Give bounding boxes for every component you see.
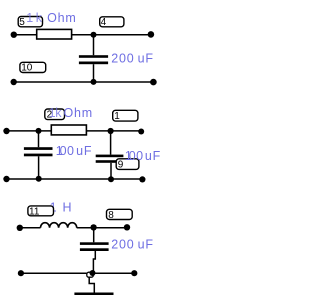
capacitor C4 plate top	[80, 242, 109, 245]
node terminal top-right (pin 4)	[148, 31, 155, 38]
svg-text:100uF: 100uF	[125, 149, 161, 163]
node junction section3 (C4)	[90, 224, 96, 230]
svg-text:1: 1	[114, 111, 120, 122]
svg-text:11: 11	[29, 206, 40, 217]
capacitor C2 plate top	[24, 147, 53, 150]
wire bottom section1	[14, 81, 154, 83]
svg-text:200uF: 200uF	[111, 51, 153, 65]
capacitor C4 top lead	[93, 227, 95, 242]
wire bottom section2	[7, 178, 143, 180]
svg-text:9: 9	[118, 160, 124, 171]
wire top-left (node to R1)	[14, 34, 37, 36]
node terminal bottom-right section3	[131, 270, 137, 276]
label box pin 2	[45, 109, 65, 121]
node terminal right section2 top (pin 1)	[138, 129, 144, 135]
node junction bottom (C1)	[91, 79, 97, 85]
node terminal left section2 top	[3, 128, 9, 134]
ground bar	[74, 293, 113, 296]
capacitor C1 top lead	[93, 35, 95, 56]
svg-text:4: 4	[101, 17, 107, 28]
ground badge tiny box	[87, 272, 94, 277]
svg-text:200uF: 200uF	[111, 238, 153, 252]
node junction top (C2)	[36, 128, 42, 134]
capacitor C4 plate bottom	[80, 248, 109, 251]
label box pin 1	[113, 110, 138, 122]
node junction bottom (C3)	[108, 176, 114, 182]
capacitor C1 plate top	[79, 55, 108, 58]
capacitor C3 plate bottom	[96, 160, 124, 163]
capacitor C3 bottom lead	[110, 163, 112, 180]
inductor L1 coil	[41, 223, 77, 228]
capacitor C1 plate bottom	[79, 62, 108, 65]
node junction ground	[90, 270, 96, 276]
node junction bottom (C2)	[36, 176, 42, 182]
label box pin 9	[116, 159, 139, 171]
capacitor C2 plate bottom	[24, 154, 53, 157]
capacitor C3 plate top	[96, 155, 124, 158]
capacitor C2 bottom lead	[38, 156, 40, 179]
wire top-left section2	[7, 130, 52, 132]
label box pin 10	[20, 62, 46, 73]
label box pin 4	[100, 17, 124, 28]
ground lead jog	[89, 277, 94, 293]
node junction top (R1/C1)	[91, 32, 97, 38]
wire R2 to right terminal	[86, 130, 141, 132]
node terminal bottom-right section1	[150, 79, 157, 86]
wire R1 to top-right terminal	[72, 34, 151, 36]
capacitor C2 top lead	[38, 131, 40, 147]
node terminal left section3 (pin 11)	[17, 225, 23, 231]
svg-text:H: H	[63, 201, 72, 215]
label box pin 5	[18, 17, 42, 29]
svg-text:100uF: 100uF	[56, 144, 92, 158]
node junction top (C3)	[108, 128, 114, 134]
capacitor C3 top lead	[110, 131, 112, 155]
resistor R1 body	[37, 29, 72, 39]
svg-text:10: 10	[21, 63, 33, 74]
capacitor C1 bottom lead	[93, 64, 95, 82]
node terminal right section3 (pin 8)	[124, 224, 130, 230]
svg-text:8: 8	[108, 210, 114, 221]
wire bottom section3	[21, 272, 134, 274]
resistor R2 body	[51, 125, 86, 135]
label box pin 11	[28, 206, 54, 217]
svg-text:1kOhm: 1kOhm	[49, 106, 93, 120]
node terminal bottom-left (pin 10)	[11, 79, 17, 85]
svg-text:5: 5	[19, 17, 25, 28]
node terminal bottom-left section3	[18, 270, 24, 276]
node terminal right section2 bottom	[139, 176, 145, 182]
wire L1 to junction	[77, 227, 127, 229]
wire left section3	[20, 227, 41, 229]
label box pin 8	[107, 209, 133, 221]
node terminal left section2 bottom	[3, 176, 9, 182]
node terminal top-left (pin 5)	[11, 32, 17, 38]
capacitor C4 bottom lead with jog	[93, 251, 95, 273]
